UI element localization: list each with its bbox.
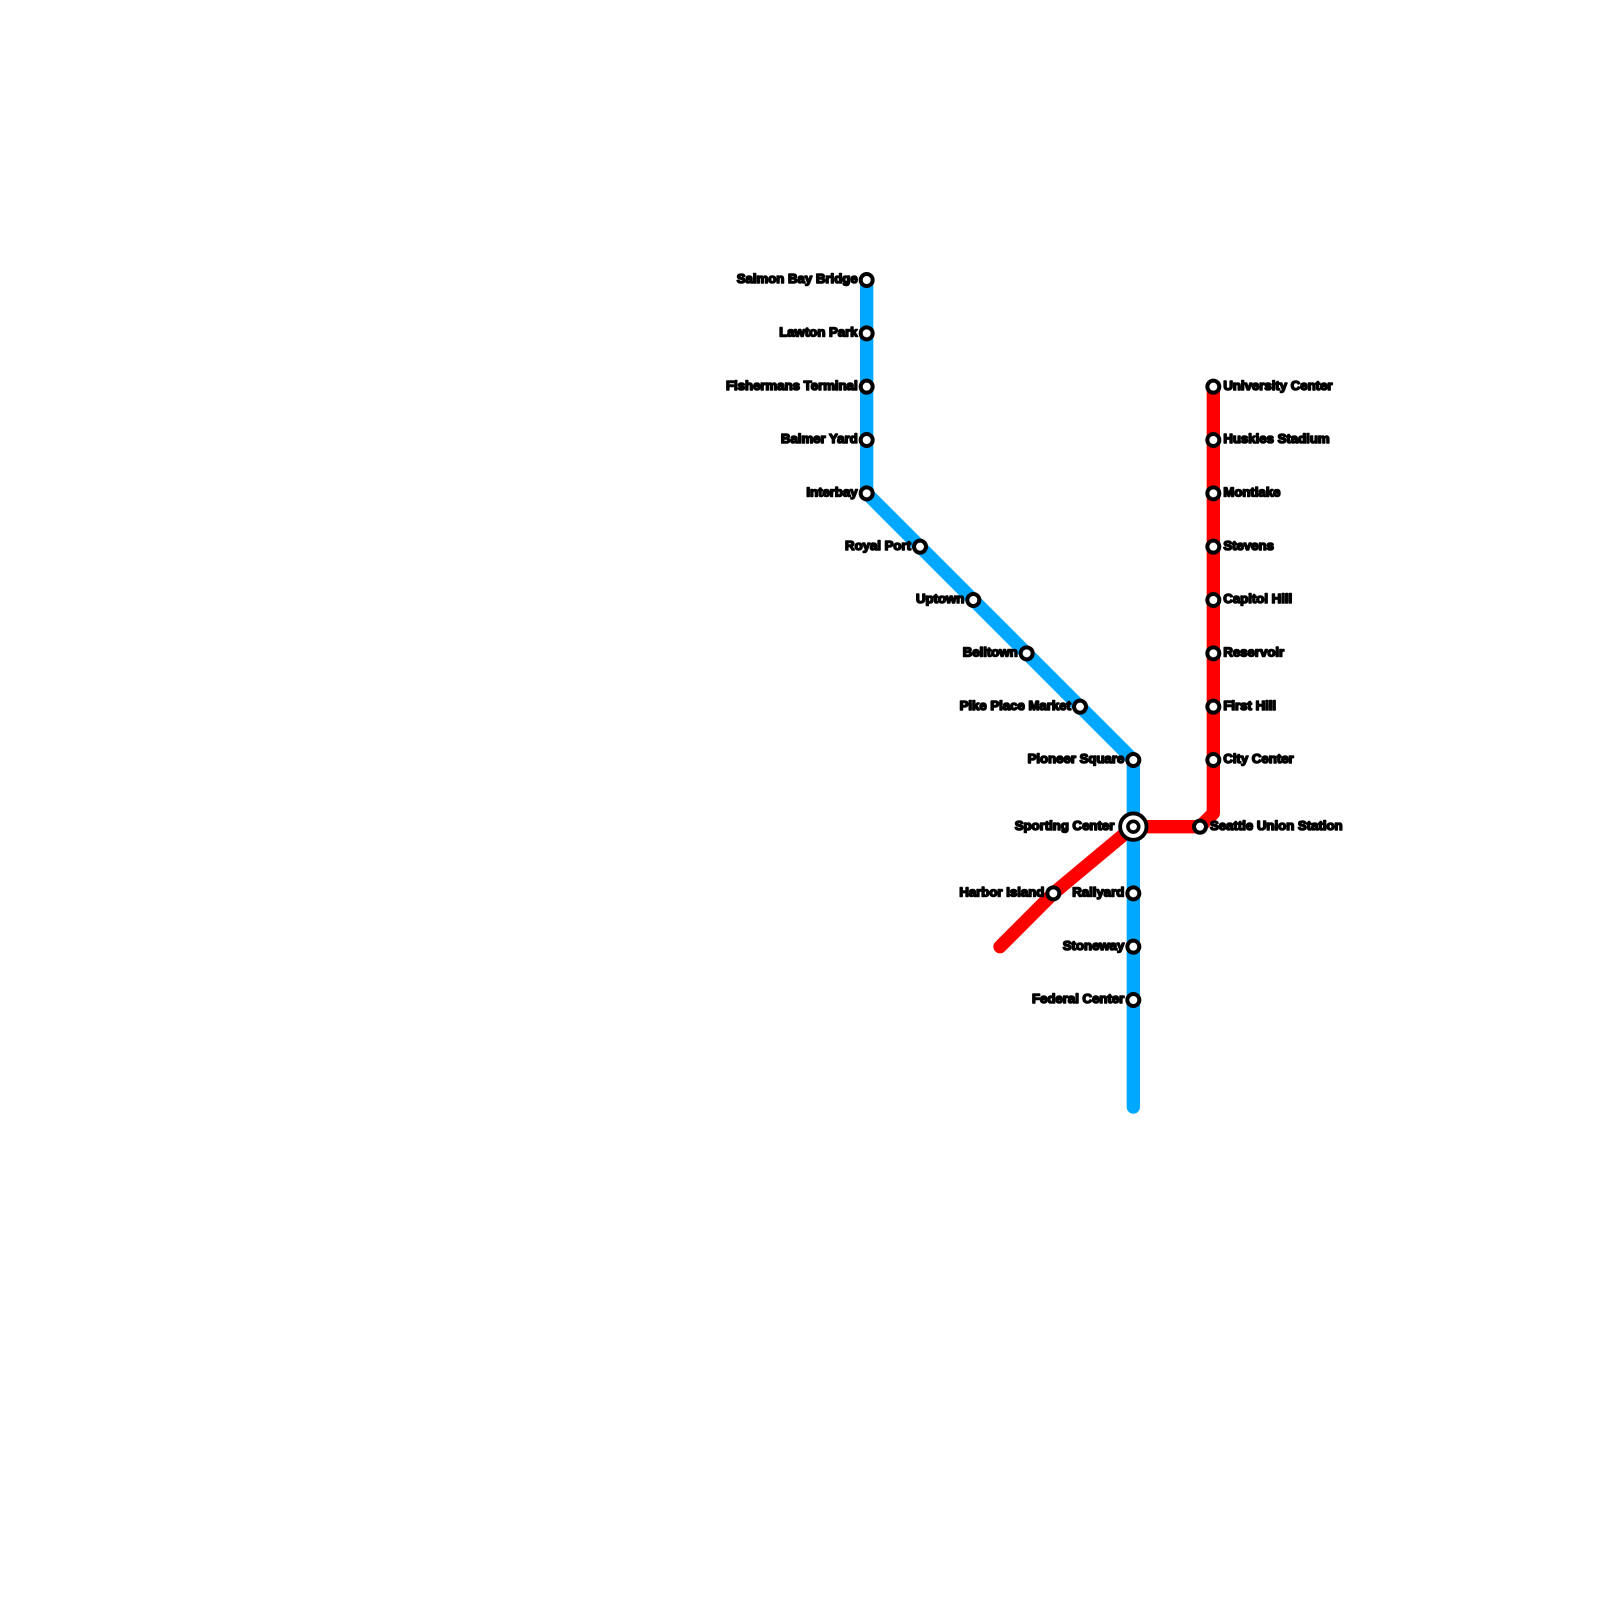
station Pike Place Market (1074, 701, 1086, 713)
svg-text:Seattle Union Station: Seattle Union Station (1210, 818, 1343, 833)
station University Center (1207, 381, 1219, 393)
station Royal Port (914, 541, 926, 553)
station Capitol Hill (1207, 594, 1219, 606)
svg-text:Royal Port: Royal Port (845, 538, 912, 553)
station Montlake (1207, 487, 1219, 499)
red line (University Center - Harbor Island) (1000, 387, 1213, 947)
svg-text:Capitol Hill: Capitol Hill (1223, 591, 1292, 606)
svg-text:University Center: University Center (1223, 378, 1332, 393)
svg-text:Stevens: Stevens (1223, 538, 1274, 553)
station Salmon Bay Bridge (861, 274, 873, 286)
svg-text:Uptown: Uptown (916, 591, 964, 606)
station Reservoir (1207, 647, 1219, 659)
svg-text:Pike Place Market: Pike Place Market (960, 698, 1072, 713)
svg-text:Balmer Yard: Balmer Yard (781, 431, 858, 446)
station Federal Center (1127, 994, 1139, 1006)
svg-text:Huskies Stadium: Huskies Stadium (1223, 431, 1329, 446)
svg-text:Montlake: Montlake (1223, 484, 1280, 499)
station Stevens (1207, 541, 1219, 553)
svg-text:Stoneway: Stoneway (1063, 938, 1125, 953)
station Harbor Island (1047, 887, 1059, 899)
station Lawton Park (861, 327, 873, 339)
svg-text:Federal Center: Federal Center (1032, 991, 1124, 1006)
svg-text:Reservoir: Reservoir (1223, 644, 1284, 659)
svg-text:Pioneer Square: Pioneer Square (1028, 751, 1125, 766)
blue line (Salmon Bay Bridge - Federal Center) (867, 280, 1134, 1107)
station Seattle Union Station (1194, 821, 1206, 833)
station Stoneway (1127, 941, 1139, 953)
interchange station Sporting Center (1120, 813, 1146, 839)
svg-text:Harbor Island: Harbor Island (959, 884, 1044, 899)
svg-text:First Hill: First Hill (1223, 698, 1276, 713)
svg-text:Interbay: Interbay (806, 484, 858, 499)
svg-text:Fishermans Terminal: Fishermans Terminal (726, 378, 858, 393)
station Uptown (967, 594, 979, 606)
station Balmer Yard (861, 434, 873, 446)
station Interbay (861, 487, 873, 499)
station First Hill (1207, 701, 1219, 713)
station Fishermans Terminal (861, 381, 873, 393)
svg-text:Salmon Bay Bridge: Salmon Bay Bridge (737, 271, 858, 286)
svg-text:Sporting Center: Sporting Center (1015, 818, 1115, 833)
station Huskies Stadium (1207, 434, 1219, 446)
station City Center (1207, 754, 1219, 766)
svg-text:City Center: City Center (1223, 751, 1293, 766)
station Belltown (1021, 647, 1033, 659)
svg-text:Lawton Park: Lawton Park (779, 324, 858, 339)
station Railyard (1127, 887, 1139, 899)
svg-text:Railyard: Railyard (1072, 884, 1124, 899)
svg-text:Belltown: Belltown (963, 644, 1018, 659)
station Pioneer Square (1127, 754, 1139, 766)
